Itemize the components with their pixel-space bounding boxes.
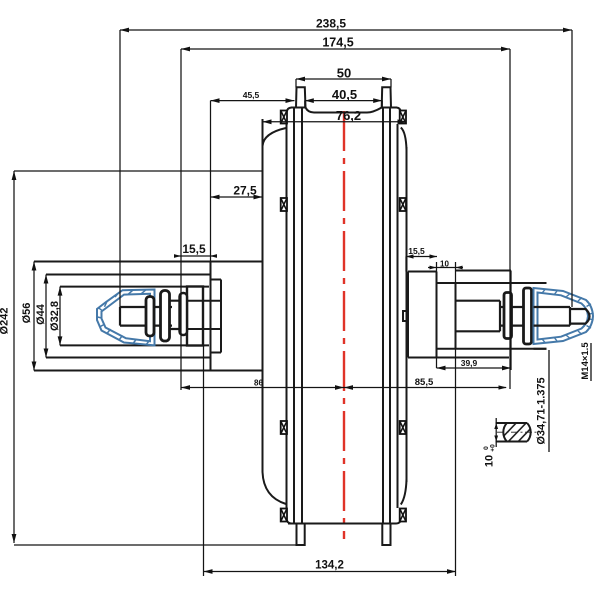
svg-text:Ø32,8: Ø32,8 (49, 301, 61, 331)
svg-text:15,5: 15,5 (408, 246, 425, 256)
svg-text:134,2: 134,2 (315, 560, 344, 572)
svg-text:238,5: 238,5 (316, 17, 346, 31)
svg-text:86: 86 (254, 379, 263, 388)
svg-text:45,5: 45,5 (243, 90, 260, 100)
svg-text:15,5: 15,5 (182, 242, 206, 256)
svg-text:50: 50 (337, 66, 351, 81)
svg-text:M14×1.5: M14×1.5 (580, 342, 591, 380)
svg-text:27,5: 27,5 (233, 184, 257, 198)
svg-text:40,5: 40,5 (332, 87, 357, 102)
svg-text:Ø56: Ø56 (21, 303, 33, 324)
svg-text:76,2: 76,2 (336, 108, 361, 123)
svg-text:10: 10 (440, 260, 449, 269)
svg-text:10: 10 (484, 455, 496, 467)
svg-text:39,9: 39,9 (461, 358, 478, 368)
svg-text:+0: +0 (490, 444, 497, 452)
svg-text:85,5: 85,5 (415, 377, 434, 388)
svg-text:Ø242: Ø242 (0, 308, 11, 335)
svg-text:Ø44: Ø44 (35, 303, 47, 325)
svg-text:Ø34,71-1.375: Ø34,71-1.375 (536, 377, 548, 444)
svg-text:174,5: 174,5 (322, 36, 353, 50)
